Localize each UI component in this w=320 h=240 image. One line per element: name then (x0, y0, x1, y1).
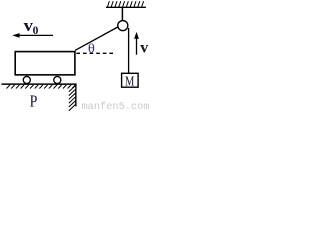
svg-text:v: v (24, 16, 33, 35)
svg-text:θ: θ (88, 41, 95, 55)
svg-text:0: 0 (33, 25, 39, 37)
svg-text:M: M (125, 73, 134, 89)
svg-text:manfen5.com: manfen5.com (82, 101, 150, 111)
svg-text:P: P (30, 92, 38, 111)
svg-text:v: v (140, 40, 148, 57)
